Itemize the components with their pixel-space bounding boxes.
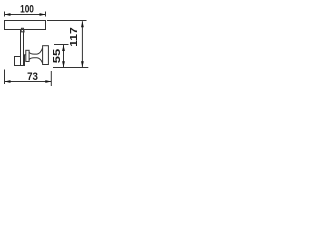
- svg-text:100: 100: [20, 4, 34, 16]
- svg-text:73: 73: [27, 71, 38, 83]
- svg-text:55: 55: [52, 48, 63, 63]
- svg-text:117: 117: [69, 27, 80, 47]
